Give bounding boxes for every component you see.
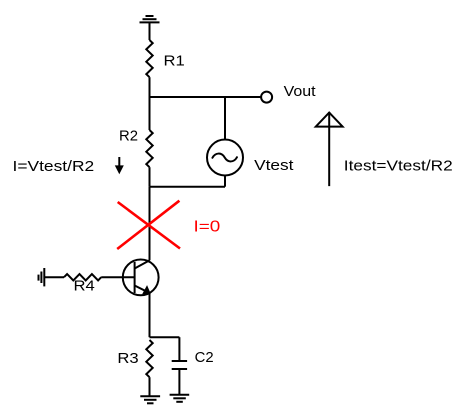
svg-text:I=Vtest/R2: I=Vtest/R2 [13,158,95,175]
resistor R4 [64,274,101,280]
wire (Vtest bottom) [224,176,226,187]
wire (Vtest top) [224,97,226,140]
node Vout terminal [261,92,272,103]
ground (left) [39,268,45,286]
capacitor C2 [172,361,187,369]
source Vtest [207,140,243,176]
wire (to Vout) [150,96,262,98]
wire [149,167,151,187]
ground (under C2) [170,395,190,402]
red X (broken wire) [117,201,180,249]
wire [149,22,151,40]
svg-text:Vtest: Vtest [254,157,294,174]
wire [149,377,151,396]
svg-text:R2: R2 [119,128,138,145]
ground (top, inverted) [140,16,160,22]
wire [149,97,151,130]
current arrow (down) [116,157,123,173]
wire (C2 bottom) [178,369,180,395]
ground (under R3) [140,396,160,403]
resistor R1 [146,40,152,77]
svg-text:R4: R4 [74,278,95,295]
wire (to C2 branch) [150,336,180,338]
wire (collector feed) [149,187,151,261]
wire (emitter down) [149,293,151,337]
wire (C2 top) [178,337,180,361]
svg-text:I=0: I=0 [194,218,221,235]
svg-text:Vout: Vout [284,83,317,100]
wire [44,276,64,278]
resistor R2 [146,130,152,167]
transistor Q1 [123,260,159,296]
arrow Itest (up, open head) [316,112,343,186]
svg-text:R3: R3 [117,350,138,367]
svg-text:C2: C2 [195,349,214,366]
svg-text:R1: R1 [164,53,185,70]
svg-text:Itest=Vtest/R2: Itest=Vtest/R2 [344,157,453,174]
wire [149,77,151,97]
resistor R3 [146,340,152,377]
wire [101,276,134,278]
wire [150,186,226,188]
